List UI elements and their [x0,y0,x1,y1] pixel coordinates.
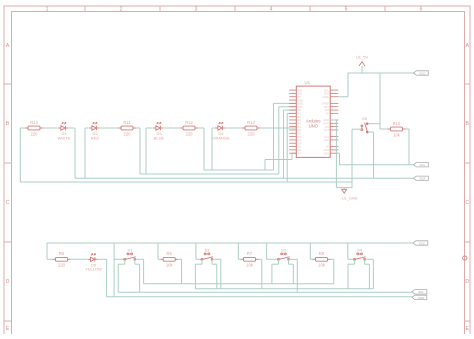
svg-text:S2: S2 [205,248,211,253]
wire v bus2 up [278,107,280,174]
wire R8 right stub [331,258,334,260]
svg-text:4: 4 [270,7,273,13]
wire S3 loop lstub [278,259,280,264]
wire v S2 loop rstub [211,259,213,264]
resistor R11 220 [118,126,136,130]
wire v r5 up [46,243,48,259]
wire v R7 down [261,259,263,288]
wire R8 left stub [310,258,312,260]
net 5V bus bottom y243 [47,242,413,244]
svg-text:R11: R11 [123,120,131,125]
svg-text:SDA: SDA [419,177,425,181]
svg-text:10k: 10k [166,263,174,268]
wire R7 left stub [238,258,240,260]
wire pin stub bus3 [274,102,297,104]
net bus2 y174 [140,173,279,175]
pushbutton S2 [201,253,214,260]
svg-text:D13: D13 [324,129,329,132]
svg-text:S3: S3 [281,248,287,253]
wire v S1 loop right [139,264,141,292]
svg-text:R7: R7 [247,251,253,256]
svg-text:BLUE: BLUE [154,135,165,140]
pushbutton S3 [277,253,290,260]
wire v S3 up [266,243,268,259]
wire v r10 left [379,124,381,129]
LED D1 WHITE [58,122,68,130]
wire v S4 loop right [368,264,370,289]
wire pin stub rail [287,112,296,114]
wire v S2 drop [220,259,222,288]
svg-text:A: A [466,43,470,49]
wire v S2 loop left [194,264,196,289]
svg-text:R5: R5 [59,251,65,256]
net flag signal b [412,295,427,299]
svg-text:D7: D7 [298,152,302,155]
wire S4 loop rtop [365,263,370,265]
resistor R10 10k [388,127,406,131]
wire v R8 up [309,243,311,259]
wire v S3 loop rstub [288,259,290,264]
wire v grp3 right [203,128,205,170]
svg-text:VCC: VCC [419,71,426,75]
wire grp2 left [85,127,89,129]
svg-text:U1_GND: U1_GND [342,196,358,200]
resistor R6 10k [160,257,178,261]
resistor R7 10k [241,257,259,261]
wire v S2 loop right [216,264,218,289]
wire v jog [291,153,293,159]
resistor R12 220 [180,126,198,130]
wire s5 lever left [352,128,361,130]
wire d5 right [98,258,107,260]
wire S4 left pin [348,258,354,260]
resistor R5 220 [53,257,71,261]
wire r10 right [406,128,410,130]
wire r5 left stub [47,258,53,260]
net flag 5V top [414,71,429,75]
wire v r10 down [408,129,410,165]
wire D3-R12 [164,127,181,129]
wire v bus3 up [273,103,275,170]
wire v jog down [264,160,266,171]
svg-text:2: 2 [120,7,123,13]
LED D3 BLUE [153,122,163,130]
wire v S1 loop left [117,264,119,292]
net flag wire y164 [340,164,414,166]
wire S2 left pin [196,258,201,260]
wire S1 loop ltop [118,263,125,265]
svg-text:S1: S1 [127,248,133,253]
net 5V bus y73 [348,72,414,74]
wire s5 top pin [368,123,380,125]
LED D2 RED [89,122,99,130]
wire S4 right pin [365,258,373,260]
net bus L1 y283.8 [144,283,334,285]
svg-text:220: 220 [58,263,66,268]
svg-text:C: C [6,200,10,206]
wire v rail up [286,113,288,182]
net bus3 y170 [204,169,274,171]
wire r10 left [380,128,388,130]
wire v power arrow [361,66,363,73]
wire v grp1 right [74,128,76,178]
wire v grp2 left [84,128,86,178]
wire R13 to pin [260,127,296,129]
net flag signal a [412,290,427,294]
wire S1 loop lstub [124,259,126,264]
resistor R14 220 [25,126,43,130]
svg-text:D10: D10 [324,139,329,142]
svg-text:5V: 5V [326,113,329,116]
svg-text:SIG: SIG [418,290,424,294]
svg-text:A: A [6,43,10,49]
svg-text:UNO: UNO [309,123,319,128]
wire S2 loop ltop [195,263,202,265]
wire v R8 down [333,259,335,284]
wire v S1 loop rstub [134,259,136,264]
net bus GND y296.8 [107,296,412,298]
net rail y182 [20,181,352,183]
svg-text:10k: 10k [246,263,254,268]
svg-text:220: 220 [124,131,132,136]
svg-text:D: D [6,279,10,285]
wire S2 right pin [213,258,221,260]
net flag SDA [414,176,429,180]
frame marker ring [463,256,467,260]
wire S3 loop ltop [272,263,279,265]
svg-text:R14: R14 [30,120,38,125]
wire D2-R11 [100,127,119,129]
wire v S4 loop rstub [364,259,366,264]
svg-text:E: E [6,326,10,332]
svg-text:SCL: SCL [419,163,425,167]
wire S3 loop rtop [289,263,294,265]
wire S1 right pin [136,258,144,260]
wire R6 right stub [178,258,181,260]
wire S4 loop lstub [354,259,356,264]
wire v S3 loop left [271,264,273,284]
wire grp4 left [212,127,215,129]
svg-text:10k: 10k [393,132,401,137]
svg-text:B: B [466,121,470,127]
resistor R8 10k [313,257,331,261]
wire grp3 left [146,127,153,129]
wire S2 loop lstub [201,259,203,264]
wire v 5V to pin [347,73,349,97]
svg-text:220: 220 [248,131,256,136]
net bus1 y178 [75,177,414,179]
net bus L2 y288.7 [195,288,373,290]
wire R14-D1 [43,127,58,129]
wire grp1 left [20,127,25,129]
pushbutton S5 [361,123,368,134]
LED D4 ORANGE [215,122,225,130]
pushbutton S4 [353,253,366,260]
net flag SCL [414,163,429,167]
wire R12 right [198,127,204,129]
svg-text:10k: 10k [318,263,326,268]
wire R11 right [136,127,140,129]
wire v d5 gnd [106,259,108,297]
svg-text:R10: R10 [393,121,401,126]
wire v S3 drop [296,259,298,292]
wire S1 loop rtop [135,263,140,265]
svg-text:YELLOW: YELLOW [85,267,102,272]
svg-text:S5: S5 [362,116,368,121]
svg-text:U1: U1 [304,80,310,85]
svg-text:VCC: VCC [419,241,426,245]
svg-text:AREF: AREF [322,96,329,99]
svg-text:R6: R6 [167,251,173,256]
svg-text:U1_5V: U1_5V [356,55,369,60]
wire v S4 drop [372,259,374,288]
svg-text:GND: GND [323,152,329,155]
wire D4-R13 [226,127,243,129]
wire S3 left pin [267,258,278,260]
wire v grp1 left rail [19,128,21,182]
wire v S4 loop left [347,264,349,289]
wire v R6 down [181,259,183,284]
wire R7 right stub [259,258,262,260]
wire v R7 up [237,243,239,259]
wire v grp3 left [145,128,147,174]
wire D1 right [69,127,76,129]
wire v S1 up [113,243,115,297]
wire v scl down [339,153,341,165]
svg-text:6: 6 [420,7,423,13]
wire S2 loop rtop [212,263,217,265]
svg-text:R13: R13 [247,120,255,125]
wire v S2 up [195,243,197,259]
svg-text:R8: R8 [319,251,325,256]
wire v R6 up [157,243,159,259]
wire R6 left stub [158,258,160,260]
wire s5 bottom pin [368,131,374,133]
svg-text:WHITE: WHITE [58,135,71,140]
net gnd bracket [336,187,352,189]
wire v gnd stub [343,188,345,190]
wire S1 left pin [114,258,124,260]
wire r5-d5 [71,258,88,260]
svg-text:S4: S4 [357,248,363,253]
wire v s5 to 5V [379,73,381,124]
svg-text:3: 3 [195,7,198,13]
net jog y159 [265,159,292,161]
net bus L3 y292.2 [118,291,412,293]
svg-text:D: D [465,279,469,285]
wire v s5 gnd [351,129,353,187]
resistor R13 220 [242,126,260,130]
wire v grp2 right [139,128,141,174]
svg-text:GND: GND [418,296,426,300]
svg-text:R12: R12 [185,120,193,125]
svg-text:5: 5 [345,7,348,13]
wire v grp4 left [211,128,213,170]
wire v S3 loop right [292,264,294,284]
svg-text:E: E [466,326,470,332]
svg-text:C: C [465,200,469,206]
net flag 5V bottom [413,241,428,245]
svg-text:RED: RED [91,135,100,140]
wire v S4 up [347,243,349,259]
svg-text:220: 220 [186,131,194,136]
wire pin stub bus1 [284,109,297,111]
wire pin stub bus2 [279,106,297,108]
svg-text:220: 220 [31,131,39,136]
op-amp U1 Arduino UNO IC [296,86,330,157]
ground U1_GND [342,189,347,193]
wire pin stub scl [338,152,339,154]
wire v gnd pin [335,120,337,188]
wire pin stub 5V [338,96,348,98]
power symbol U1_5V [359,62,365,66]
wire S4 loop ltop [348,263,355,265]
wire pin stub gnd [330,119,336,121]
svg-text:ORANGE: ORANGE [212,135,230,140]
wire pin stub jog [292,152,296,154]
wire v s5 signal [373,132,375,178]
LED D5 YELLOW [88,254,98,262]
svg-text:B: B [6,121,10,127]
wire v S1 drop [143,259,145,284]
pushbutton S1 [123,253,136,260]
svg-text:1: 1 [46,7,49,13]
wire v bus1 up [283,110,285,178]
wire S3 right pin [289,258,297,260]
